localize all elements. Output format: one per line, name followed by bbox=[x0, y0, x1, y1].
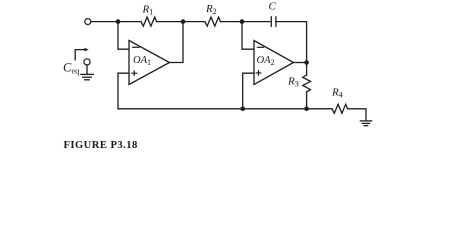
junction node C bbox=[240, 19, 245, 24]
lower port terminal circle bbox=[84, 59, 90, 65]
junction bottom rail at R3 bbox=[304, 107, 309, 112]
OA1 plus sign bbox=[132, 72, 137, 74]
ground right bbox=[360, 120, 371, 122]
wire node A down to OA1 inverting input bbox=[118, 22, 129, 50]
junction bottom rail at OA2 input bbox=[240, 107, 245, 112]
wire OA1 output up to node B bbox=[170, 22, 184, 63]
OA2 plus sign bbox=[256, 72, 261, 74]
wire input to node A bbox=[91, 21, 141, 23]
resistor R3 bbox=[303, 75, 311, 92]
junction node D (OA2 output) bbox=[304, 60, 309, 65]
svg-text:FIGURE P3.18: FIGURE P3.18 bbox=[64, 140, 138, 151]
OA1 minus sign bbox=[133, 46, 139, 48]
wire terminal to ground bbox=[86, 65, 88, 74]
op-amp OA1 bbox=[129, 41, 170, 85]
input terminal circle bbox=[85, 19, 91, 25]
wire OA2 noninverting input down to bottom rail bbox=[243, 73, 254, 109]
OA2 minus sign bbox=[257, 46, 263, 48]
ground left bbox=[81, 73, 93, 75]
capacitor C bbox=[270, 17, 272, 27]
resistor R1 bbox=[141, 17, 157, 26]
wire C to right corner bbox=[276, 22, 307, 63]
wire node D down to R3 bbox=[306, 63, 308, 76]
wire R3 to bottom rail bbox=[306, 92, 308, 109]
wire node C down to OA2 inverting input bbox=[242, 22, 254, 50]
wire OA1 noninverting input down to bottom rail bbox=[118, 73, 129, 109]
resistor R4 bbox=[332, 104, 348, 113]
bottom rail wire bbox=[118, 108, 332, 110]
op-amp OA2 bbox=[254, 41, 294, 85]
wire R1 to R2 bbox=[157, 21, 205, 23]
junction node B bbox=[181, 19, 186, 24]
wire R4 to ground bbox=[348, 109, 366, 121]
svg-text:C: C bbox=[269, 1, 277, 13]
resistor R2 bbox=[205, 17, 221, 26]
wire R2 to capacitor C bbox=[221, 21, 272, 23]
wire OA2 output to node D bbox=[294, 62, 307, 64]
Ceq arrow bbox=[75, 50, 85, 60]
Ceq arrowhead bbox=[84, 48, 88, 52]
junction node A bbox=[116, 19, 121, 24]
